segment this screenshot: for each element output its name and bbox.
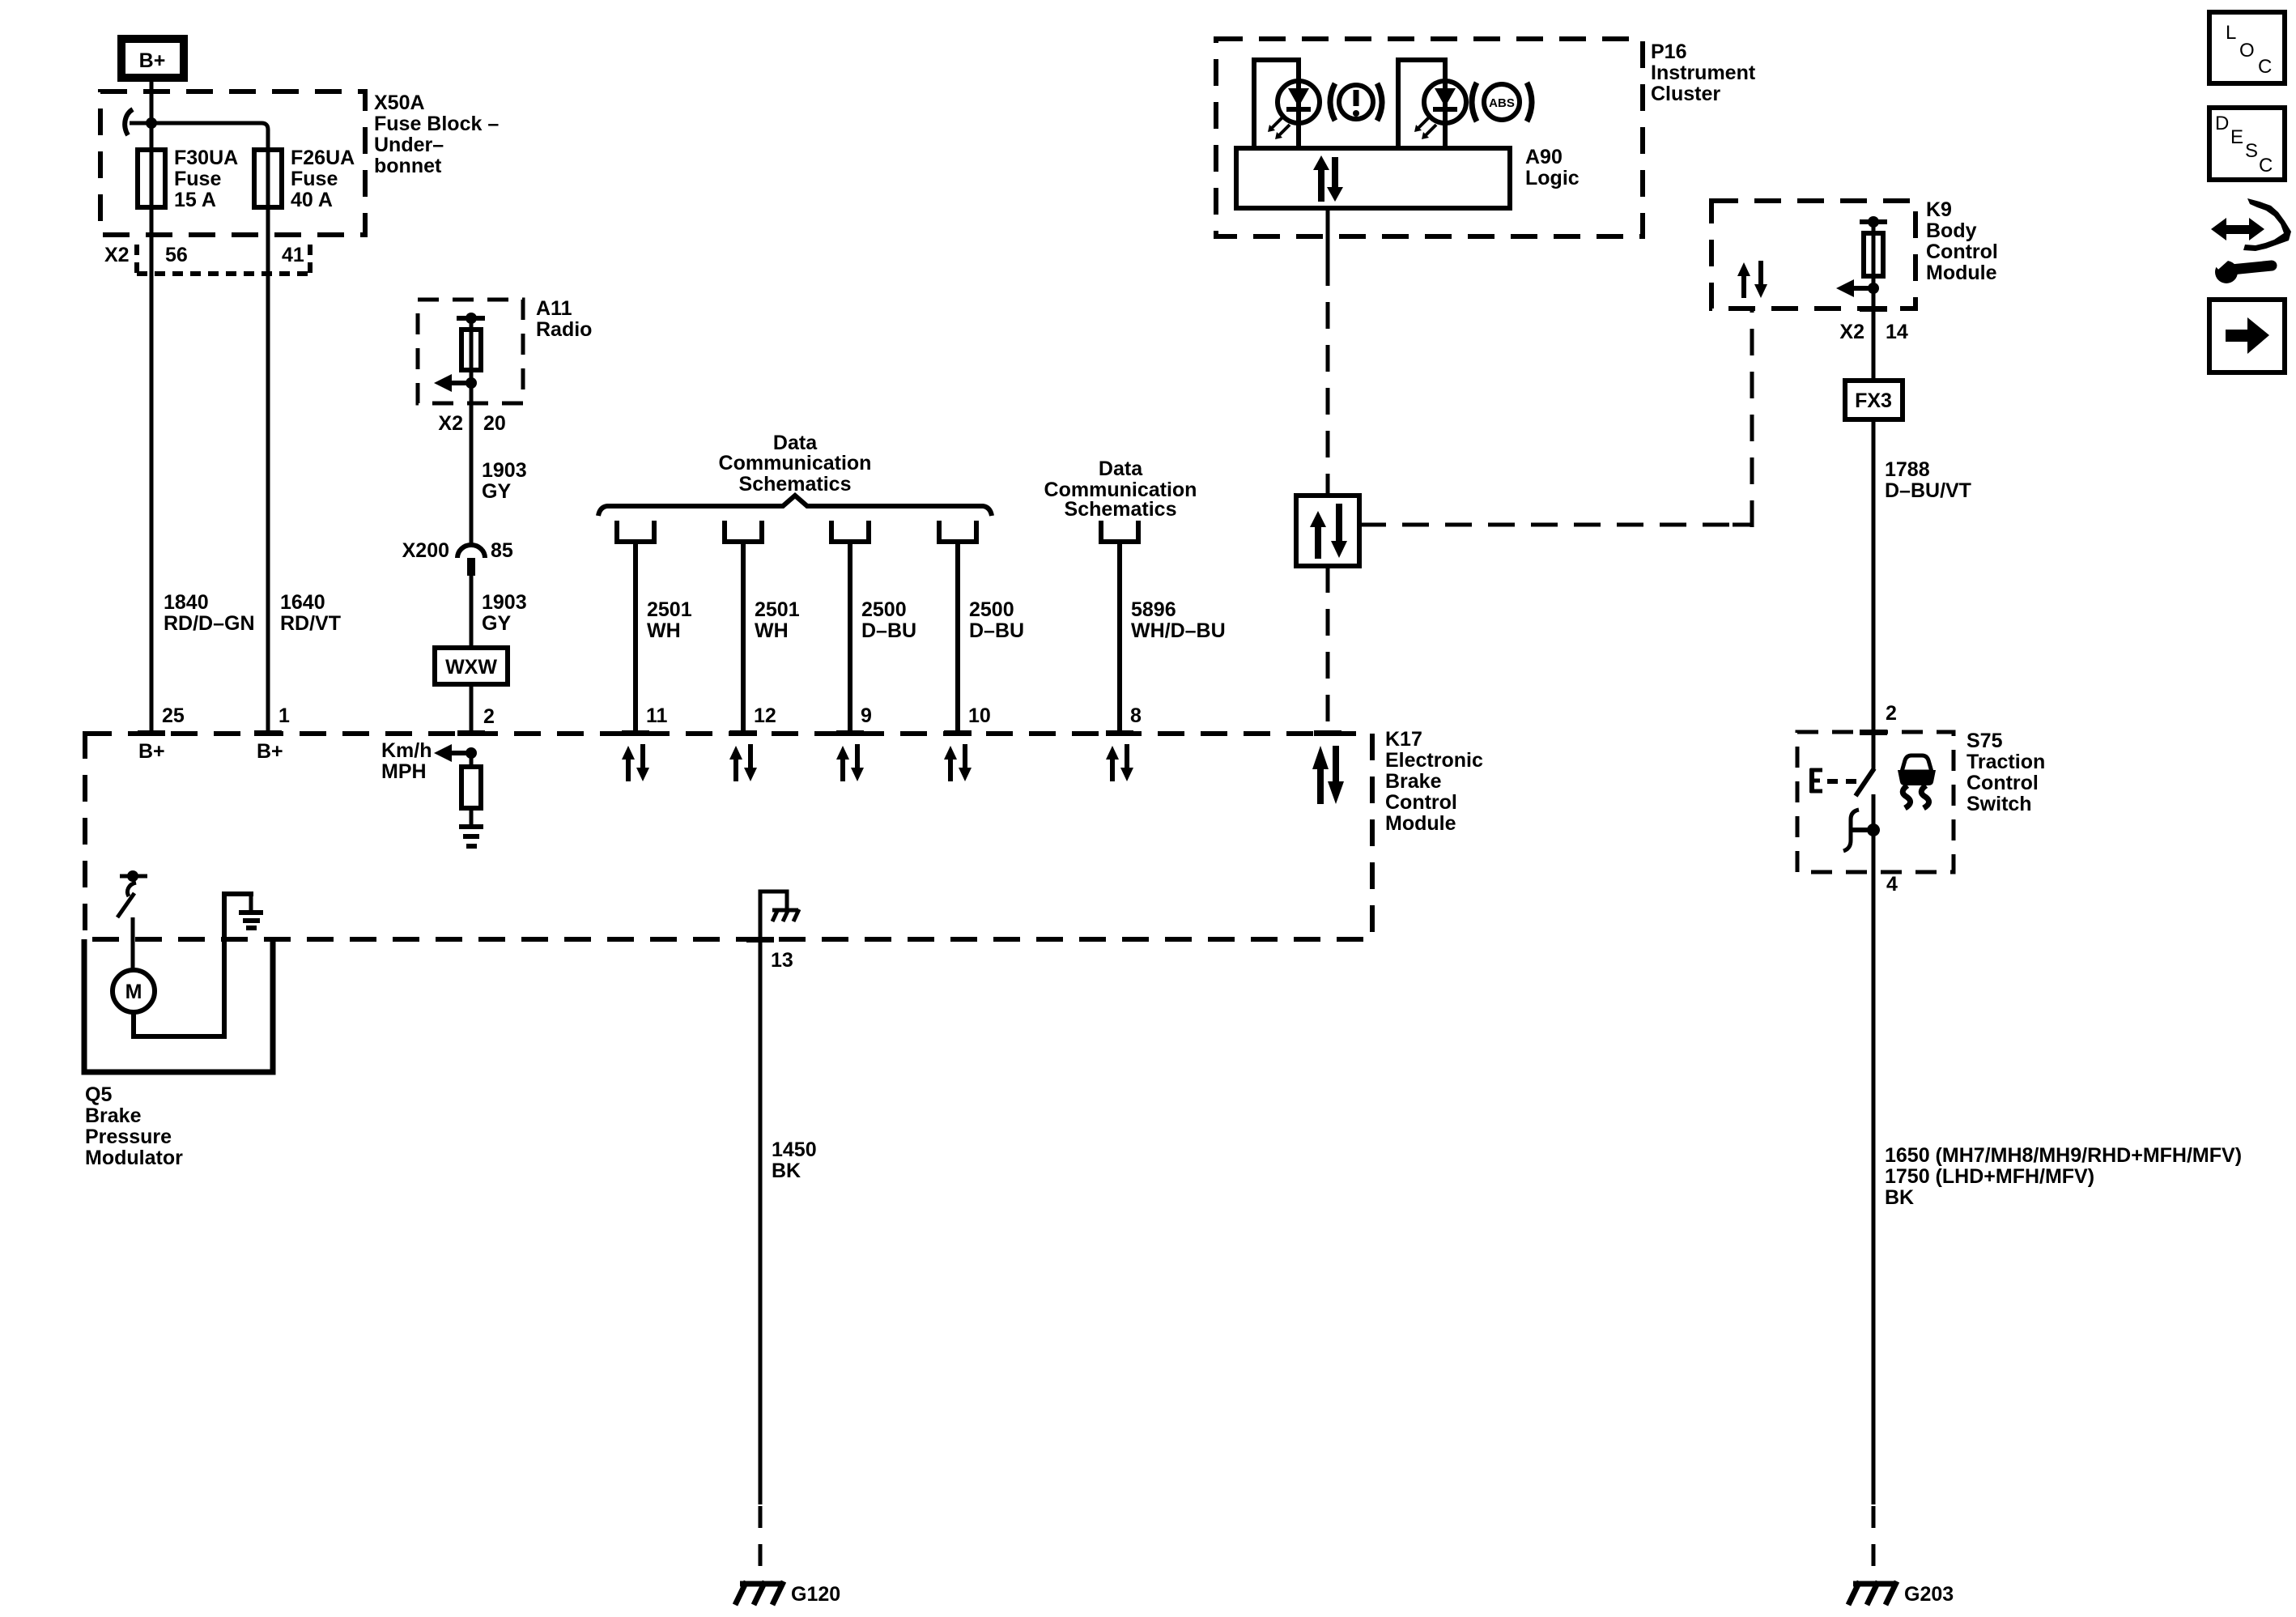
K17 internal pump switch contact bar xyxy=(120,874,147,879)
svg-text:RD/VT: RD/VT xyxy=(280,612,341,635)
svg-text:C: C xyxy=(2258,56,2272,78)
ground G120 symbol xyxy=(735,1581,784,1605)
K17 speed signal junction dot xyxy=(466,747,477,759)
fuse FX3 box xyxy=(1845,381,1903,419)
svg-text:1450: 1450 xyxy=(772,1138,817,1161)
svg-text:X50A: X50A xyxy=(374,91,425,114)
forward navigation icon xyxy=(2209,300,2285,372)
K17 internal pump switch junction xyxy=(127,870,138,882)
svg-text:12: 12 xyxy=(754,704,776,727)
svg-text:8: 8 xyxy=(1130,704,1142,727)
svg-text:2500: 2500 xyxy=(861,598,907,621)
K9 data arrows xyxy=(1737,261,1767,298)
svg-text:56: 56 xyxy=(165,244,188,266)
svg-text:B+: B+ xyxy=(139,49,166,72)
wire B+ feed to F26UA xyxy=(130,123,268,154)
svg-text:X2: X2 xyxy=(438,412,463,435)
A11 internal wire xyxy=(470,320,474,545)
svg-text:1840: 1840 xyxy=(164,591,209,614)
svg-text:1650 (MH7/MH8/MH9/RHD+MFH/MFV): 1650 (MH7/MH8/MH9/RHD+MFH/MFV) xyxy=(1885,1144,2242,1167)
harness routing icon wrench xyxy=(2213,253,2272,283)
harness routing icon double arrow xyxy=(2211,218,2264,240)
svg-text:G203: G203 xyxy=(1904,1583,1954,1606)
wire 2501 WH label second xyxy=(755,598,800,642)
svg-text:P16: P16 xyxy=(1651,40,1686,63)
svg-text:BK: BK xyxy=(772,1160,801,1182)
wire 1840 RD/D-GN label xyxy=(164,591,255,635)
svg-text:K9: K9 xyxy=(1926,198,1952,221)
svg-text:Control: Control xyxy=(1966,772,2039,794)
pin feet on K17 top edge xyxy=(138,730,1341,943)
serial data corner piece xyxy=(1733,506,1752,525)
wire 1640 RD/VT label xyxy=(280,591,341,635)
junction on B+ wire xyxy=(146,117,157,129)
K17 data arrows pin 10 xyxy=(944,744,972,781)
K9 internal signal arrow xyxy=(1836,279,1873,297)
wire serial data link to K17 dashed xyxy=(1326,566,1330,733)
svg-text:X2: X2 xyxy=(104,244,130,266)
wire switch to motor xyxy=(131,917,135,971)
wire motor return to K17 ground xyxy=(134,894,253,1036)
svg-text:Switch: Switch xyxy=(1966,793,2032,815)
fuse F26UA 40 A xyxy=(254,150,282,207)
svg-text:Fuse: Fuse xyxy=(174,168,221,190)
K17 internal chassis ground symbol xyxy=(772,909,799,921)
brace over data wires xyxy=(598,496,992,516)
svg-text:10: 10 xyxy=(968,704,991,727)
svg-text:WXW: WXW xyxy=(445,656,497,679)
wire 2500 D-BU label first xyxy=(861,598,916,642)
svg-text:Logic: Logic xyxy=(1525,167,1580,189)
location icon LOC xyxy=(2209,12,2285,83)
Q5 label xyxy=(85,1083,183,1169)
description icon DESC xyxy=(2209,108,2285,180)
svg-text:Module: Module xyxy=(1926,262,1997,284)
svg-text:13: 13 xyxy=(771,949,793,972)
wire 1650 1750 BK label xyxy=(1885,1144,2242,1209)
svg-text:Module: Module xyxy=(1385,812,1456,835)
svg-text:M: M xyxy=(125,981,142,1003)
svg-text:85: 85 xyxy=(491,539,513,562)
instrument cluster P16 dashed box xyxy=(1216,39,1643,236)
svg-text:40 A: 40 A xyxy=(291,189,333,211)
serial data link box xyxy=(1296,496,1359,566)
wire serial data link to K9 dashed xyxy=(1359,523,1752,527)
S75 switch lower wire xyxy=(1872,794,1876,872)
brake warning lamp housing xyxy=(1254,60,1299,148)
radio A11 dashed box xyxy=(418,300,523,403)
S75 momentary contact bar xyxy=(1852,828,1873,832)
svg-text:5896: 5896 xyxy=(1131,598,1176,621)
wire 1903 GY label upper xyxy=(482,459,527,503)
serial data link box arrows xyxy=(1310,504,1347,559)
wire 2500 D-BU label second xyxy=(969,598,1024,642)
svg-text:Radio: Radio xyxy=(536,318,592,341)
S75 traction control icon car body xyxy=(1898,755,1936,785)
svg-text:L: L xyxy=(2226,22,2236,44)
svg-text:B+: B+ xyxy=(257,740,283,763)
svg-text:Body: Body xyxy=(1926,219,1977,242)
Q5 brake pressure modulator solid box xyxy=(84,939,273,1072)
A90 logic box xyxy=(1236,148,1510,208)
fuse block X50A label xyxy=(374,91,499,177)
K17 data arrows serial data entry xyxy=(1312,746,1344,804)
wire 1650 1750 BK dashed tail xyxy=(1872,1506,1876,1585)
wire 1788 D-BU/VT xyxy=(1872,419,1876,732)
off-page fork wire 2501 pin 11 xyxy=(614,521,657,733)
K17 speed signal arrow xyxy=(434,744,471,762)
fuse F30UA label xyxy=(174,147,238,211)
ABS warning LED emission arrows xyxy=(1414,117,1436,139)
wire F26UA down to K17 pin 1 xyxy=(266,150,270,733)
svg-text:Data: Data xyxy=(1099,457,1143,480)
svg-text:2501: 2501 xyxy=(755,598,800,621)
svg-text:O: O xyxy=(2239,40,2255,62)
wire A90 serial data dashed xyxy=(1326,259,1330,496)
S75 actuator E symbol xyxy=(1810,768,1822,793)
splice pack WXW box xyxy=(435,648,508,684)
wire 1788 D-BU/VT label xyxy=(1885,458,1971,502)
connector X2 of fuse block xyxy=(137,245,310,275)
K9 internal supply bar xyxy=(1860,219,1887,224)
ABS warning lamp housing xyxy=(1398,60,1445,148)
svg-text:BK: BK xyxy=(1885,1186,1914,1209)
svg-text:X2: X2 xyxy=(1839,321,1864,343)
svg-text:S: S xyxy=(2245,140,2258,162)
A90 data arrows xyxy=(1313,155,1343,202)
wire resistor to earth xyxy=(470,808,474,827)
wire B+ down through F30UA to K17 pin 25 xyxy=(150,78,154,733)
body control module K9 dashed box xyxy=(1711,201,1915,309)
inline connector X200 terminal xyxy=(467,558,475,576)
svg-text:GY: GY xyxy=(482,612,511,635)
Km/h MPH label xyxy=(381,739,432,783)
svg-text:D–BU: D–BU xyxy=(969,619,1024,642)
ground G203 symbol xyxy=(1848,1581,1897,1605)
svg-text:2: 2 xyxy=(483,705,495,728)
svg-text:Km/h: Km/h xyxy=(381,739,432,762)
K17 data arrows pin 9 xyxy=(836,744,864,781)
svg-text:14: 14 xyxy=(1886,321,1908,343)
svg-text:Q5: Q5 xyxy=(85,1083,112,1106)
wire 1450 BK label xyxy=(772,1138,817,1182)
off-page fork wire 5896 pin 8 xyxy=(1099,521,1141,733)
K17 internal ground for pin 13 xyxy=(760,891,787,939)
wire A90 serial data solid xyxy=(1326,208,1330,259)
A11 internal junction dot xyxy=(466,377,477,389)
svg-text:WH/D–BU: WH/D–BU xyxy=(1131,619,1226,642)
wire serial data riser to K9 dashed xyxy=(1750,309,1754,527)
svg-text:1903: 1903 xyxy=(482,591,527,614)
brake warning LED emission arrows xyxy=(1268,117,1290,139)
svg-text:Brake: Brake xyxy=(85,1104,142,1127)
A11 internal supply bar xyxy=(457,316,485,321)
radio A11 label xyxy=(536,297,592,341)
pin foot on S75 top edge xyxy=(1860,730,1887,735)
K9 pin foot on box bottom xyxy=(1860,306,1887,312)
A11 internal resistor xyxy=(461,330,481,370)
svg-text:Control: Control xyxy=(1926,240,1998,263)
svg-text:D–BU/VT: D–BU/VT xyxy=(1885,479,1971,502)
S75 actuator dashed link xyxy=(1827,779,1857,784)
traction control switch S75 label xyxy=(1966,730,2045,815)
wire 1903 GY label lower xyxy=(482,591,527,635)
S75 traction control icon skid marks xyxy=(1903,785,1928,808)
svg-text:A90: A90 xyxy=(1525,146,1563,168)
fuse F26UA label xyxy=(291,147,355,211)
svg-text:G120: G120 xyxy=(791,1583,840,1606)
svg-text:D: D xyxy=(2215,113,2229,134)
K17 label xyxy=(1385,728,1483,835)
svg-text:ABS: ABS xyxy=(1489,96,1515,110)
svg-text:GY: GY xyxy=(482,480,511,503)
svg-text:Modulator: Modulator xyxy=(85,1147,183,1169)
K17 internal pump switch blade xyxy=(117,893,134,917)
K17 internal pump switch hook xyxy=(127,883,136,896)
inline connector X200 arc xyxy=(457,545,485,558)
svg-text:MPH: MPH xyxy=(381,760,427,783)
svg-text:Schematics: Schematics xyxy=(739,473,852,496)
instrument cluster P16 label xyxy=(1651,40,1756,105)
svg-text:F30UA: F30UA xyxy=(174,147,238,169)
fuse block X50A dashed box xyxy=(100,91,365,235)
svg-text:D–BU: D–BU xyxy=(861,619,916,642)
svg-text:2500: 2500 xyxy=(969,598,1014,621)
svg-text:1750 (LHD+MFH/MFV): 1750 (LHD+MFH/MFV) xyxy=(1885,1165,2094,1188)
wire 1450 BK to G120 xyxy=(759,939,763,1504)
svg-text:9: 9 xyxy=(861,704,872,727)
S75 switch blade xyxy=(1856,768,1874,796)
svg-text:Communication: Communication xyxy=(719,452,872,474)
svg-text:Fuse Block –: Fuse Block – xyxy=(374,113,499,135)
svg-text:Brake: Brake xyxy=(1385,770,1442,793)
wire 2501 WH label first xyxy=(647,598,692,642)
svg-text:4: 4 xyxy=(1886,873,1898,896)
K9 internal supply dot xyxy=(1868,216,1879,228)
svg-text:S75: S75 xyxy=(1966,730,2003,752)
traction control switch S75 dashed box xyxy=(1797,732,1954,872)
motor M of Q5 pump xyxy=(113,970,155,1012)
svg-text:41: 41 xyxy=(282,244,304,266)
K17 data arrows pin 11 xyxy=(622,744,649,781)
K9 internal wire xyxy=(1872,223,1876,381)
svg-text:20: 20 xyxy=(483,412,506,435)
svg-text:Traction: Traction xyxy=(1966,751,2045,773)
S75 momentary contact junction xyxy=(1867,823,1880,836)
svg-text:Cluster: Cluster xyxy=(1651,83,1720,105)
svg-text:FX3: FX3 xyxy=(1855,389,1892,412)
wire 1650 1750 BK to G203 xyxy=(1872,872,1876,1504)
svg-text:WH: WH xyxy=(755,619,789,642)
svg-text:1903: 1903 xyxy=(482,459,527,482)
K17 electronic brake control module dashed box xyxy=(85,734,1372,939)
svg-text:2501: 2501 xyxy=(647,598,692,621)
K17 earth ground below resistor xyxy=(459,827,483,846)
svg-text:15 A: 15 A xyxy=(174,189,216,211)
wire 5896 WH/D-BU label xyxy=(1131,598,1226,642)
data communication schematics label right xyxy=(1044,457,1197,521)
off-page fork wire 2500 pin 9 xyxy=(829,521,871,733)
svg-text:Under–: Under– xyxy=(374,134,444,156)
K17 data arrows pin 8 xyxy=(1106,744,1133,781)
K17 internal resistor below speed signal xyxy=(461,767,481,808)
svg-text:1788: 1788 xyxy=(1885,458,1930,481)
brake warning LED xyxy=(1278,81,1320,123)
K17 data arrows pin 12 xyxy=(729,744,757,781)
A11 internal signal arrow xyxy=(434,374,471,392)
brake warning indicator symbol xyxy=(1330,83,1382,121)
ABS warning LED xyxy=(1424,81,1466,123)
svg-text:Data: Data xyxy=(773,432,818,454)
battery feed B+ terminal box xyxy=(121,39,184,78)
S75 momentary detent symbol xyxy=(1843,810,1859,851)
off-page fork wire 2501 pin 12 xyxy=(722,521,764,733)
svg-text:F26UA: F26UA xyxy=(291,147,355,169)
svg-text:A11: A11 xyxy=(536,297,572,320)
K9 internal junction dot xyxy=(1868,283,1879,294)
svg-text:1: 1 xyxy=(278,704,290,727)
ABS indicator symbol xyxy=(1472,83,1532,121)
wire speed signal to resistor xyxy=(470,753,474,767)
battery terminal clip xyxy=(125,109,133,135)
svg-text:Schematics: Schematics xyxy=(1065,498,1177,521)
svg-text:E: E xyxy=(2230,126,2243,148)
svg-text:C: C xyxy=(2259,155,2273,177)
svg-text:Instrument: Instrument xyxy=(1651,62,1756,84)
fuse F30UA 15 A xyxy=(138,150,165,207)
svg-text:Fuse: Fuse xyxy=(291,168,338,190)
K17 internal earth ground symbol xyxy=(239,913,263,928)
harness routing icon outline xyxy=(2243,198,2291,251)
svg-text:1640: 1640 xyxy=(280,591,325,614)
svg-text:Electronic: Electronic xyxy=(1385,749,1483,772)
svg-text:Pressure: Pressure xyxy=(85,1126,172,1148)
A90 label xyxy=(1525,146,1580,189)
svg-text:X200: X200 xyxy=(402,539,449,562)
wire 1450 BK dashed tail xyxy=(759,1506,763,1585)
svg-text:K17: K17 xyxy=(1385,728,1422,751)
off-page fork wire 2500 pin 10 xyxy=(937,521,979,733)
K17 internal earth ground stub xyxy=(249,894,253,910)
svg-text:B+: B+ xyxy=(138,740,165,763)
S75 switch upper wire xyxy=(1872,732,1876,769)
A11 internal supply dot xyxy=(466,313,477,324)
svg-text:Control: Control xyxy=(1385,791,1457,814)
body control module K9 label xyxy=(1926,198,1998,284)
svg-text:RD/D–GN: RD/D–GN xyxy=(164,612,255,635)
svg-text:WH: WH xyxy=(647,619,681,642)
svg-text:2: 2 xyxy=(1886,702,1897,725)
svg-text:bonnet: bonnet xyxy=(374,155,442,177)
svg-text:25: 25 xyxy=(162,704,185,727)
svg-text:11: 11 xyxy=(646,704,668,727)
K9 internal resistor xyxy=(1864,233,1883,276)
data communication schematics label left xyxy=(719,432,872,496)
